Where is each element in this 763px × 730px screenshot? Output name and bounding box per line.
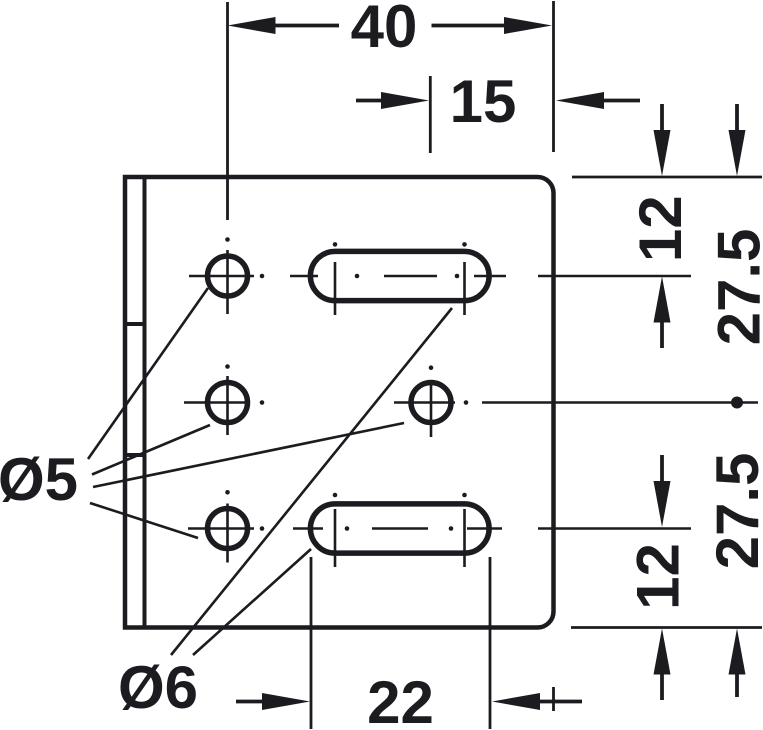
svg-text:12: 12 — [627, 195, 694, 262]
svg-text:27.5: 27.5 — [706, 229, 763, 346]
svg-text:22: 22 — [367, 669, 434, 730]
svg-text:12: 12 — [625, 543, 692, 610]
svg-text:Ø5: Ø5 — [0, 446, 78, 513]
svg-text:27.5: 27.5 — [704, 453, 763, 570]
svg-text:15: 15 — [450, 68, 517, 135]
svg-text:40: 40 — [351, 0, 418, 60]
svg-text:Ø6: Ø6 — [118, 654, 198, 721]
